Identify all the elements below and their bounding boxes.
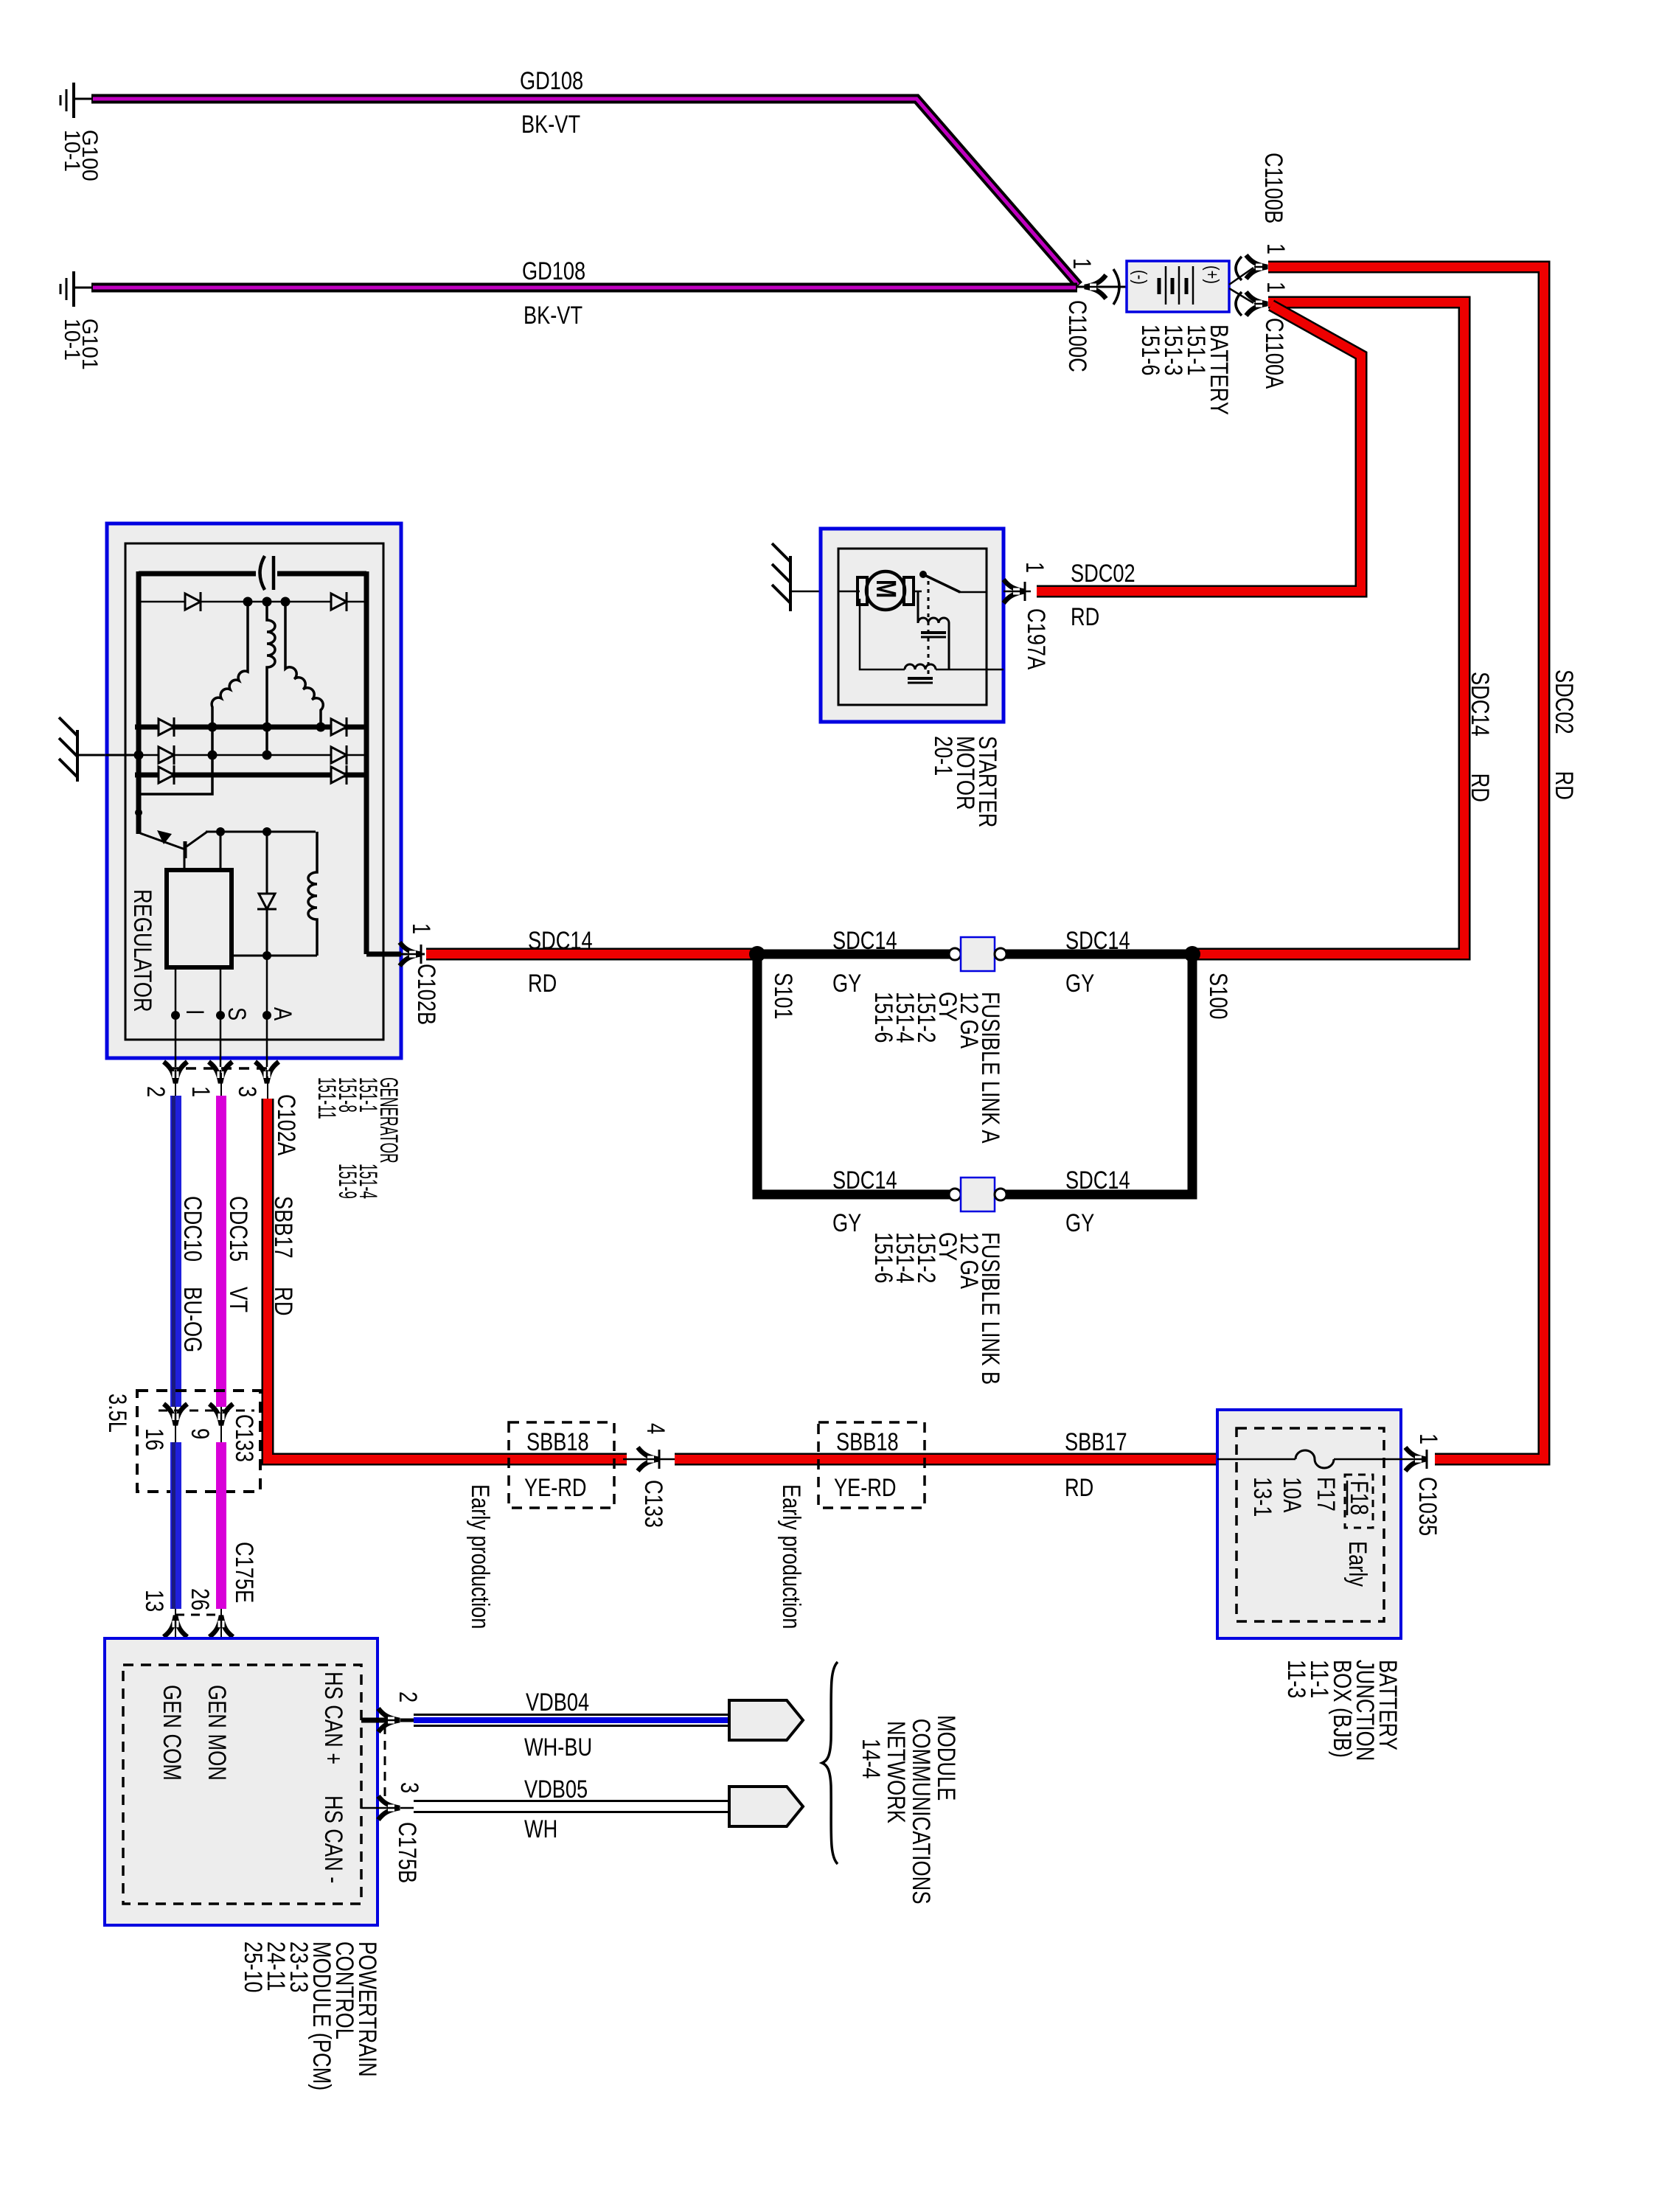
svg-text:GY: GY bbox=[1065, 1208, 1094, 1237]
regulator collector bus bbox=[206, 831, 316, 833]
svg-text:GD108: GD108 bbox=[522, 257, 585, 285]
wire through BJB bbox=[1217, 1458, 1295, 1461]
diode (row2 left) bbox=[159, 717, 174, 737]
ground G101 bbox=[60, 271, 93, 307]
starter solenoid link (dashed) bbox=[928, 581, 930, 678]
svg-text:C175E: C175E bbox=[230, 1542, 259, 1603]
svg-text:SBB17RD: SBB17RD bbox=[269, 1196, 298, 1315]
terminal dots I S A bbox=[171, 1011, 180, 1020]
wire S sense bbox=[220, 832, 222, 870]
svg-text:GEN MON: GEN MON bbox=[203, 1685, 232, 1781]
svg-text:RD: RD bbox=[1071, 602, 1099, 631]
svg-text:S: S bbox=[223, 1007, 251, 1020]
wires C175E into PCM bbox=[175, 1625, 176, 1665]
PCM inner dashed box bbox=[123, 1665, 361, 1904]
svg-text:1: 1 bbox=[1414, 1433, 1443, 1444]
diode (row4 left) bbox=[159, 765, 174, 785]
fusible link A bbox=[949, 948, 961, 960]
wire CDC10 BU-OG (generator I to PCM) bbox=[175, 1073, 176, 1630]
wire CDC10 (C133 to C175E) bbox=[170, 1442, 181, 1609]
wire SDC14 GY (S101 to link A) bbox=[757, 950, 951, 959]
battery box bbox=[1127, 261, 1229, 312]
connector C175E dashed line bbox=[175, 1614, 221, 1616]
connector arrow C1035 bbox=[1405, 1447, 1427, 1471]
wire ground into generator bbox=[105, 754, 140, 757]
svg-text:VDB05: VDB05 bbox=[524, 1775, 588, 1804]
svg-text:GEN COM: GEN COM bbox=[158, 1685, 187, 1781]
wire I terminal bbox=[175, 967, 177, 1067]
svg-text:S101: S101 bbox=[769, 973, 798, 1019]
diode (row3 left) bbox=[159, 745, 174, 765]
svg-text:RD: RD bbox=[1065, 1473, 1093, 1502]
diode (row1 right) bbox=[331, 592, 347, 611]
wire SDC14 GY (link A to S100) bbox=[1006, 950, 1192, 959]
label SBB18 dashed box (left) bbox=[509, 1422, 614, 1508]
svg-text:SDC14: SDC14 bbox=[832, 926, 897, 955]
diode row 3 (ground bus) bbox=[135, 754, 369, 757]
svg-text:13: 13 bbox=[140, 1590, 169, 1612]
svg-text:3.5L: 3.5L bbox=[103, 1394, 132, 1433]
wire field return bbox=[232, 955, 317, 957]
svg-text:WH-BU: WH-BU bbox=[524, 1733, 592, 1761]
svg-text:SDC14: SDC14 bbox=[528, 926, 593, 955]
connector arrows C133 (down) bbox=[164, 1404, 187, 1425]
off-page connector (VDB04) bbox=[729, 1700, 803, 1740]
connector arrow C1100B bbox=[1246, 255, 1267, 279]
transistor (regulator) bbox=[140, 832, 207, 870]
svg-text:HS CAN +: HS CAN + bbox=[319, 1672, 348, 1764]
battery junction box (BJB) bbox=[1217, 1410, 1401, 1638]
starter motor inner box bbox=[838, 549, 987, 705]
ground (generator) bbox=[59, 717, 139, 782]
ground (starter motor) bbox=[772, 543, 822, 611]
motor M circle bbox=[866, 571, 905, 610]
svg-text:1: 1 bbox=[1020, 562, 1049, 573]
field winding bbox=[308, 832, 317, 956]
battery positive leads bbox=[1229, 268, 1253, 285]
svg-text:GY: GY bbox=[832, 969, 861, 998]
diode row 2 bbox=[135, 725, 369, 730]
diode (row4 right) bbox=[331, 765, 347, 785]
capacitor plates bbox=[260, 556, 265, 590]
connector bracket C1100A bbox=[1236, 292, 1242, 316]
wire SBB17 RD (generator A to BJB) bbox=[268, 1077, 627, 1459]
wire S terminal bbox=[220, 967, 222, 1067]
wire SDC02 RD (battery to starter motor) bbox=[1037, 305, 1361, 591]
wire SBB18/SBB17 RD (C133 to BJB) bbox=[675, 1453, 1217, 1466]
connector arrow C1100A bbox=[1246, 292, 1267, 316]
svg-text:10A: 10A bbox=[1278, 1477, 1307, 1513]
stator winding (left) bbox=[139, 602, 248, 794]
svg-text:Early production: Early production bbox=[466, 1484, 495, 1629]
svg-text:S100: S100 bbox=[1204, 973, 1233, 1019]
svg-text:RD: RD bbox=[528, 969, 557, 998]
connector 3.5L dashed box bbox=[137, 1391, 260, 1492]
svg-text:C102B: C102B bbox=[412, 964, 441, 1025]
splice S101 bbox=[749, 946, 765, 962]
svg-text:1: 1 bbox=[187, 1086, 215, 1097]
svg-text:1: 1 bbox=[1262, 243, 1290, 254]
svg-text:C1100C: C1100C bbox=[1063, 300, 1092, 372]
svg-text:WH: WH bbox=[524, 1815, 557, 1843]
wire SDC14 GY (link B to S100) bbox=[1006, 954, 1192, 1194]
wire SDC14 RD (battery C1100A to S100) bbox=[1192, 302, 1464, 954]
starter solenoid lower coil bbox=[905, 664, 936, 669]
wire GD108 BK-VT (from G100) bbox=[91, 99, 1079, 285]
regulator box bbox=[167, 870, 232, 967]
svg-text:3: 3 bbox=[233, 1086, 262, 1097]
generator inner box bbox=[125, 543, 383, 1040]
connector C175B dashed line bbox=[384, 1725, 386, 1803]
fusible link B bbox=[949, 1189, 961, 1200]
diode (field) bbox=[266, 832, 268, 956]
diode row 4 bbox=[135, 773, 369, 778]
connector arrow C133 (inline) bbox=[638, 1447, 659, 1471]
svg-text:Early production: Early production bbox=[777, 1484, 806, 1629]
svg-text:SDC14: SDC14 bbox=[1065, 1166, 1130, 1194]
stator winding (right) bbox=[285, 602, 323, 727]
connector bracket C1100B bbox=[1236, 257, 1242, 280]
svg-text:BK-VT: BK-VT bbox=[524, 301, 582, 330]
svg-text:VDB04: VDB04 bbox=[526, 1688, 589, 1717]
F18 dashed box bbox=[1345, 1475, 1373, 1528]
connector arrow C1100C bbox=[1085, 275, 1106, 299]
connector C133 dashed line (generator side) bbox=[159, 1410, 254, 1412]
svg-text:CDC15VT: CDC15VT bbox=[224, 1196, 253, 1312]
diode (row1 left) bbox=[185, 592, 201, 611]
svg-text:GY: GY bbox=[1065, 969, 1094, 998]
connector arrow C102B bbox=[400, 942, 421, 966]
generator top bus with capacitor bbox=[139, 571, 366, 577]
svg-text:C197A: C197A bbox=[1022, 608, 1051, 670]
svg-text:SBB18: SBB18 bbox=[526, 1427, 589, 1456]
brace (module communications network) bbox=[822, 1662, 838, 1864]
wire battery negative lead bbox=[1077, 286, 1127, 288]
connector arrow C175B pin3 bbox=[378, 1796, 400, 1820]
svg-text:2: 2 bbox=[394, 1691, 422, 1703]
svg-text:16: 16 bbox=[140, 1428, 169, 1450]
connector arrows C102A (down) bbox=[164, 1062, 187, 1083]
svg-text:13-1: 13-1 bbox=[1248, 1477, 1277, 1517]
wire starter to C197A bbox=[1004, 591, 1031, 593]
svg-text:BK-VT: BK-VT bbox=[521, 110, 580, 139]
svg-text:SDC14: SDC14 bbox=[832, 1166, 897, 1194]
diode row 1 bbox=[139, 601, 366, 603]
starter switch bbox=[914, 591, 922, 593]
svg-text:1: 1 bbox=[1068, 258, 1096, 269]
svg-text:SDC14: SDC14 bbox=[1065, 926, 1130, 955]
starter motor box bbox=[821, 529, 1004, 722]
wire SDC02 RD (battery C1100B to BJB) bbox=[1268, 267, 1544, 1459]
svg-text:3: 3 bbox=[395, 1782, 424, 1793]
wire HS CAN+ stub bbox=[361, 1718, 391, 1723]
svg-text:9: 9 bbox=[186, 1428, 215, 1439]
wire generator output to C102B bbox=[366, 952, 401, 957]
fuse F17 symbol bbox=[1295, 1450, 1334, 1468]
starter motor wire (ground to motor) bbox=[838, 591, 860, 593]
svg-text:2: 2 bbox=[142, 1086, 170, 1097]
ground G100 bbox=[60, 83, 93, 118]
svg-text:26: 26 bbox=[186, 1588, 215, 1610]
generator right bus bbox=[364, 571, 369, 954]
svg-text:1: 1 bbox=[407, 923, 436, 934]
svg-text:(-): (-) bbox=[1130, 270, 1150, 285]
phase taps on row1 bbox=[243, 597, 253, 607]
connector arrow C175B pin2 bbox=[378, 1708, 400, 1732]
svg-text:C1035: C1035 bbox=[1413, 1477, 1442, 1536]
svg-text:SBB17: SBB17 bbox=[1065, 1427, 1127, 1456]
generator box bbox=[107, 524, 401, 1058]
svg-text:C102A: C102A bbox=[272, 1094, 301, 1156]
connector bracket C1100C bbox=[1113, 269, 1119, 305]
svg-text:SDC02: SDC02 bbox=[1071, 559, 1135, 588]
connector C102A dashed line bbox=[168, 1067, 273, 1070]
starter internal return wire bbox=[860, 599, 1004, 669]
svg-text:I: I bbox=[181, 1009, 209, 1015]
svg-text:SBB18: SBB18 bbox=[836, 1427, 899, 1456]
svg-text:C175B: C175B bbox=[393, 1822, 422, 1883]
wire SDC14 GY (S101 lower branch) bbox=[757, 954, 951, 1194]
wire GD108 BK-VT (from G101) bbox=[91, 283, 1077, 293]
wire CDC15 VT (generator S to PCM) bbox=[220, 1073, 222, 1630]
connector arrow C197A bbox=[1004, 580, 1025, 603]
svg-text:GY: GY bbox=[832, 1208, 861, 1237]
wire jumper at C133 (red gap) bbox=[623, 1458, 678, 1461]
svg-text:C133: C133 bbox=[639, 1480, 668, 1528]
label SBB18 dashed box (right) bbox=[818, 1422, 925, 1508]
splice S100 bbox=[1184, 946, 1200, 962]
motor brush tabs bbox=[858, 577, 867, 605]
svg-text:1: 1 bbox=[1262, 282, 1290, 293]
svg-text:C133: C133 bbox=[230, 1414, 259, 1462]
wire VDB05 WH bbox=[400, 1807, 414, 1809]
svg-text:C1100B: C1100B bbox=[1259, 153, 1288, 223]
diode (row3 right) bbox=[331, 745, 347, 765]
wire SDC14 RD (C102B to S101) bbox=[426, 948, 757, 961]
svg-text:F18: F18 bbox=[1345, 1481, 1374, 1515]
wire CDC15 (C133 to C175E) bbox=[216, 1442, 226, 1609]
svg-text:HS CAN -: HS CAN - bbox=[319, 1795, 348, 1883]
generator left bus bbox=[136, 571, 142, 834]
off-page connector (VDB05) bbox=[729, 1787, 803, 1826]
junction dots (rectifier) bbox=[208, 723, 218, 732]
battery plates bbox=[1159, 266, 1193, 305]
svg-text:GD108: GD108 bbox=[520, 66, 583, 95]
svg-text:YE-RD: YE-RD bbox=[524, 1473, 587, 1502]
wire VDB04 WH-BU bbox=[400, 1719, 414, 1722]
BJB inner dashed box bbox=[1237, 1428, 1384, 1621]
svg-text:C1100A: C1100A bbox=[1260, 318, 1289, 389]
svg-text:4: 4 bbox=[641, 1423, 670, 1434]
stator winding (center) bbox=[267, 602, 275, 755]
svg-text:(+): (+) bbox=[1202, 265, 1222, 284]
svg-text:YE-RD: YE-RD bbox=[834, 1473, 897, 1502]
svg-text:A: A bbox=[268, 1007, 297, 1021]
starter solenoid upper coil bbox=[918, 592, 949, 669]
svg-text:M: M bbox=[870, 580, 901, 598]
svg-text:Early: Early bbox=[1343, 1541, 1372, 1587]
svg-text:F17: F17 bbox=[1312, 1477, 1340, 1512]
wire HS CAN- stub bbox=[361, 1807, 391, 1809]
wire A terminal bbox=[266, 956, 268, 1067]
diode (row2 right) bbox=[331, 717, 347, 737]
svg-text:REGULATOR: REGULATOR bbox=[128, 889, 157, 1012]
connector arrows C175E (up) bbox=[164, 1615, 187, 1637]
powertrain control module (PCM) box bbox=[105, 1638, 378, 1925]
